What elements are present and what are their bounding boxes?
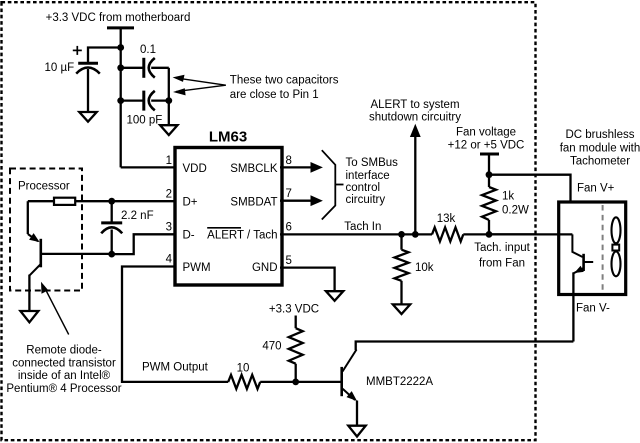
wire 100pF left lead [121,99,143,101]
svg-text:2.2 nF: 2.2 nF [121,210,154,222]
fan module box [559,202,626,295]
node bus/10uF junction [117,44,124,51]
svg-text:are close to Pin 1: are close to Pin 1 [230,89,319,101]
fan blade bottom [612,252,621,277]
svg-text:Processor: Processor [18,181,70,193]
resistor R 10 [228,375,260,389]
svg-text:10 µF: 10 µF [45,62,75,74]
svg-text:GND: GND [252,262,278,274]
svg-text:connected transistor: connected transistor [12,357,116,369]
wire fan voltage vertical [488,154,490,187]
fan module internal dashed divider [602,205,604,291]
node 470/PWM junction [292,379,299,386]
wire 10 resistor to node to base [260,381,340,383]
svg-text:Fan V-: Fan V- [576,303,610,315]
svg-text:470: 470 [262,341,281,353]
svg-text:VDD: VDD [183,163,207,175]
svg-text:13k: 13k [437,213,456,225]
wire pin 8 SMBCLK with arrow [280,162,323,173]
capacitor C 0.1 [144,58,169,78]
node bus/0.1 junction [117,64,124,71]
ground (below 10uF) [79,112,96,122]
svg-text:from Fan: from Fan [479,258,525,270]
svg-text:1: 1 [166,155,172,167]
svg-text:D+: D+ [183,197,198,209]
svg-text:3: 3 [166,221,172,233]
svg-text:0.1: 0.1 [140,44,156,56]
svg-text:These two capacitors: These two capacitors [230,74,339,86]
annotation arrow to 0.1 cap [173,75,226,85]
fan tach transistor Q (inside module) [572,234,593,341]
resistor R 1k [482,187,496,234]
ground (below 100pF) [160,125,177,135]
ground (processor transistor) [20,311,38,322]
svg-text:ALERT to system: ALERT to system [370,99,459,111]
wire pin 6 tach line [280,233,432,235]
resistor R 10k [395,234,409,304]
svg-text:Tach In: Tach In [344,221,381,233]
transistor Q MMBT2222A [342,350,357,426]
svg-text:1k: 1k [502,191,514,203]
svg-text:5: 5 [286,255,292,267]
svg-text:fan module with: fan module with [560,143,640,155]
wire VDD bus vertical [120,28,122,168]
annotation arrow to 100pF cap [173,85,226,95]
wire D- to pin 3 [112,234,176,254]
wire pin 5 GND [280,268,335,292]
svg-text:ALERT / Tach: ALERT / Tach [207,230,277,242]
+3.3 VDC supply bar [107,26,134,29]
wire +3.3 VDC to 470 [295,316,297,329]
IC U1 LM63 body [175,148,282,286]
capacitor C 2.2nF [101,201,122,254]
svg-text:Remote diode-: Remote diode- [26,345,102,357]
svg-text:shutdown circuitry: shutdown circuitry [369,111,461,123]
svg-text:DC brushless: DC brushless [565,129,634,141]
resistor (rectangle style) in processor [54,198,75,205]
node bus/100pF junction [117,97,124,104]
wire tach into fan module [489,233,572,235]
ground (pin 5) [326,291,343,301]
svg-text:interface: interface [346,170,390,182]
transistor Q remote diode (in processor) [28,201,112,311]
svg-text:SMBDAT: SMBDAT [230,197,277,209]
ground (below MMBT2222A) [348,426,365,437]
capacitor C 10uF [76,63,100,112]
svg-text:Fan V+: Fan V+ [577,183,615,195]
processor dashed box [10,169,82,291]
annotation arrow to processor transistor [41,282,69,335]
svg-text:6: 6 [286,222,292,234]
node tach/10k junction [398,231,405,238]
svg-text:7: 7 [286,188,292,200]
node 100pF right junction [165,97,172,104]
capacitor C 100pF [144,91,169,111]
resistor R 13k [432,227,463,241]
svg-text:PWM Output: PWM Output [142,362,209,374]
svg-text:To SMBus: To SMBus [346,157,399,169]
svg-text:0.2W: 0.2W [502,204,529,216]
svg-text:8: 8 [286,155,292,167]
svg-text:Pentium® 4 Processor: Pentium® 4 Processor [6,383,121,395]
node tach/ALERT junction [412,231,419,238]
node fan voltage / fan V+ branch [486,171,493,178]
ground (below 10k) [393,304,410,314]
ALERT output arrow up [410,124,421,235]
svg-text:4: 4 [166,254,173,266]
svg-text:inside of an Intel®: inside of an Intel® [18,370,111,382]
wire to Fan V+ [489,175,571,201]
SMBus brace [322,150,344,219]
svg-text:control: control [346,182,381,194]
svg-text:Tach. input: Tach. input [474,242,530,254]
svg-text:+3.3 VDC from motherboard: +3.3 VDC from motherboard [46,12,191,24]
svg-text:PWM: PWM [183,262,211,274]
svg-text:Tachometer: Tachometer [570,155,630,167]
fan hub [612,245,619,251]
svg-text:LM63: LM63 [209,129,247,146]
svg-text:10k: 10k [415,262,434,274]
wire fan V- return to MMBT2222A collector [356,342,574,351]
resistor R 470 [289,328,303,382]
svg-text:Fan voltage: Fan voltage [456,126,516,138]
capacitor C 10uF polarity plus sign [73,46,82,55]
wire D+ from transistor [28,200,54,202]
wire right vertical between caps [168,68,170,125]
node D-/2.2nF junction [108,251,115,258]
node D+/2.2nF junction [108,198,115,205]
svg-text:MMBT2222A: MMBT2222A [366,376,433,388]
wire bus to pin 1 [121,166,176,168]
svg-text:100 pF: 100 pF [127,114,163,126]
svg-text:+12 or +5 VDC: +12 or +5 VDC [448,139,525,151]
svg-text:SMBCLK: SMBCLK [230,163,278,175]
Fan voltage supply bar [480,153,499,156]
svg-text:circuitry: circuitry [346,194,386,206]
wire pin 7 SMBDAT with arrow [280,195,323,206]
node 1k bottom / tach junction [486,231,493,238]
wire resistor to D+ pin [75,200,176,202]
svg-text:+3.3 VDC: +3.3 VDC [269,304,319,316]
wire 10uF top lead [88,48,121,63]
svg-text:10: 10 [237,362,250,374]
wire pin 4 PWM to bottom [122,267,228,382]
svg-text:D-: D- [183,230,195,242]
svg-text:2: 2 [166,188,172,200]
wire 0.1 cap left lead [121,67,143,69]
wire 13k to 1k node [463,233,535,235]
fan blade top [612,217,621,243]
